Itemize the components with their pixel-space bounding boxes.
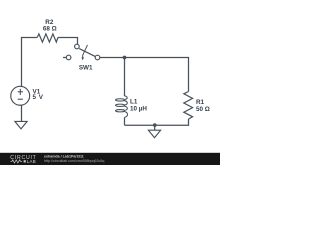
bottom wire from L1 to R1 — [125, 124, 189, 126]
closed throw contact — [95, 55, 100, 60]
wire R1 bottom lead — [188, 119, 190, 126]
svg-text:http://circuitlab.com/cmv558bp: http://circuitlab.com/cmv558bpq63c8q — [44, 159, 104, 163]
node junction at L1 top — [123, 56, 127, 60]
pole contact — [75, 44, 80, 49]
inductor L1 — [116, 96, 148, 118]
svg-text:10 µH: 10 µH — [130, 105, 147, 112]
stub lead of open throw — [63, 57, 66, 59]
ground (right) — [148, 125, 160, 138]
wire L1 bottom lead — [124, 117, 126, 125]
wire V1 minus terminal to ground — [21, 105, 23, 121]
ground (left) — [15, 121, 27, 128]
svg-text:5 V: 5 V — [33, 94, 44, 101]
svg-text:68 Ω: 68 Ω — [43, 26, 57, 33]
lever — [79, 49, 95, 57]
svg-text:LAB: LAB — [27, 159, 36, 164]
switch SW1 — [63, 44, 100, 71]
wire from R2 to SW1 pole — [58, 38, 78, 45]
voltage source V1 — [11, 86, 44, 105]
svg-text:50 Ω: 50 Ω — [196, 106, 210, 113]
svg-text:SW1: SW1 — [79, 65, 93, 72]
resistor R2 — [37, 19, 58, 42]
open throw contact — [66, 55, 71, 60]
actuation arrow — [83, 45, 88, 58]
wire from V1 plus terminal up and right to R2 — [22, 38, 38, 87]
wire from SW1 throw to R1 top — [100, 58, 189, 92]
wire from junction down to L1 — [124, 58, 126, 97]
resistor R1 — [184, 92, 210, 120]
svg-text:R1: R1 — [196, 99, 205, 106]
footer watermark bar — [0, 153, 220, 165]
node junction at ground tap — [153, 123, 157, 127]
